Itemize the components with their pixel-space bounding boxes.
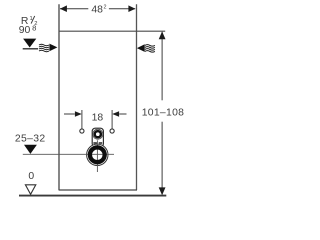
- bolt spacing dimension 18, right segment with arrowhead: [119, 113, 126, 115]
- outlet pipe black annulus: [90, 147, 105, 162]
- right water flow symbol: arrowhead into module: [137, 44, 145, 52]
- floor datum triangle (outline): [25, 185, 35, 195]
- width dimension left arrowhead: [60, 5, 67, 12]
- width dimension right arrowhead: [128, 5, 135, 12]
- outlet horizontal centerline (to 25-32 marker): [23, 153, 114, 155]
- svg-text:18: 18: [92, 113, 104, 124]
- line under supply triangle: [23, 48, 38, 50]
- svg-text:48: 48: [91, 5, 103, 16]
- bolt spacing dimension 18, left segment with arrowhead: [64, 113, 75, 115]
- right fixing bolt circle: [110, 129, 114, 133]
- module left edge + left extension line: [58, 4, 60, 190]
- floor line: [19, 195, 166, 197]
- left bolt extension line: [81, 110, 83, 129]
- flush pipe connector donut: [95, 131, 101, 137]
- svg-text:25–32: 25–32: [15, 134, 46, 145]
- svg-text:0: 0: [28, 171, 34, 182]
- right water flow symbol: waves: [145, 45, 155, 53]
- fraction slash: [31, 16, 35, 24]
- svg-text:8: 8: [32, 23, 36, 32]
- left water flow symbol: waves: [39, 44, 49, 52]
- outlet vertical centerline: [96, 140, 98, 172]
- width dimension line 48, left segment: [60, 8, 88, 10]
- height dimension line 101-108, lower segment: [161, 122, 163, 195]
- module bottom edge: [59, 189, 137, 191]
- outlet height triangle marker: [24, 145, 37, 154]
- clamp dash left: [93, 142, 97, 144]
- height dimension down arrowhead: [159, 187, 166, 195]
- height dimension line 101-108, upper segment: [161, 32, 163, 101]
- svg-text:2: 2: [104, 5, 107, 11]
- flush bend housing rounded rect: [92, 128, 103, 147]
- outlet outer circle: [87, 144, 108, 165]
- right bolt extension line: [111, 110, 113, 129]
- clamp dash right: [99, 142, 103, 144]
- module right edge + right extension line: [136, 4, 138, 190]
- module top edge extended to height dimension: [59, 30, 166, 32]
- svg-text:90: 90: [19, 25, 31, 36]
- left fixing bolt circle: [80, 129, 84, 133]
- flush pipe connector outer ring: [93, 129, 103, 139]
- svg-text:101–108: 101–108: [142, 108, 185, 119]
- water supply connection triangle marker: [23, 39, 36, 48]
- width dimension line 48, right segment: [109, 8, 135, 10]
- left water flow symbol: arrowhead into module: [49, 44, 57, 52]
- height dimension up arrowhead: [159, 31, 166, 39]
